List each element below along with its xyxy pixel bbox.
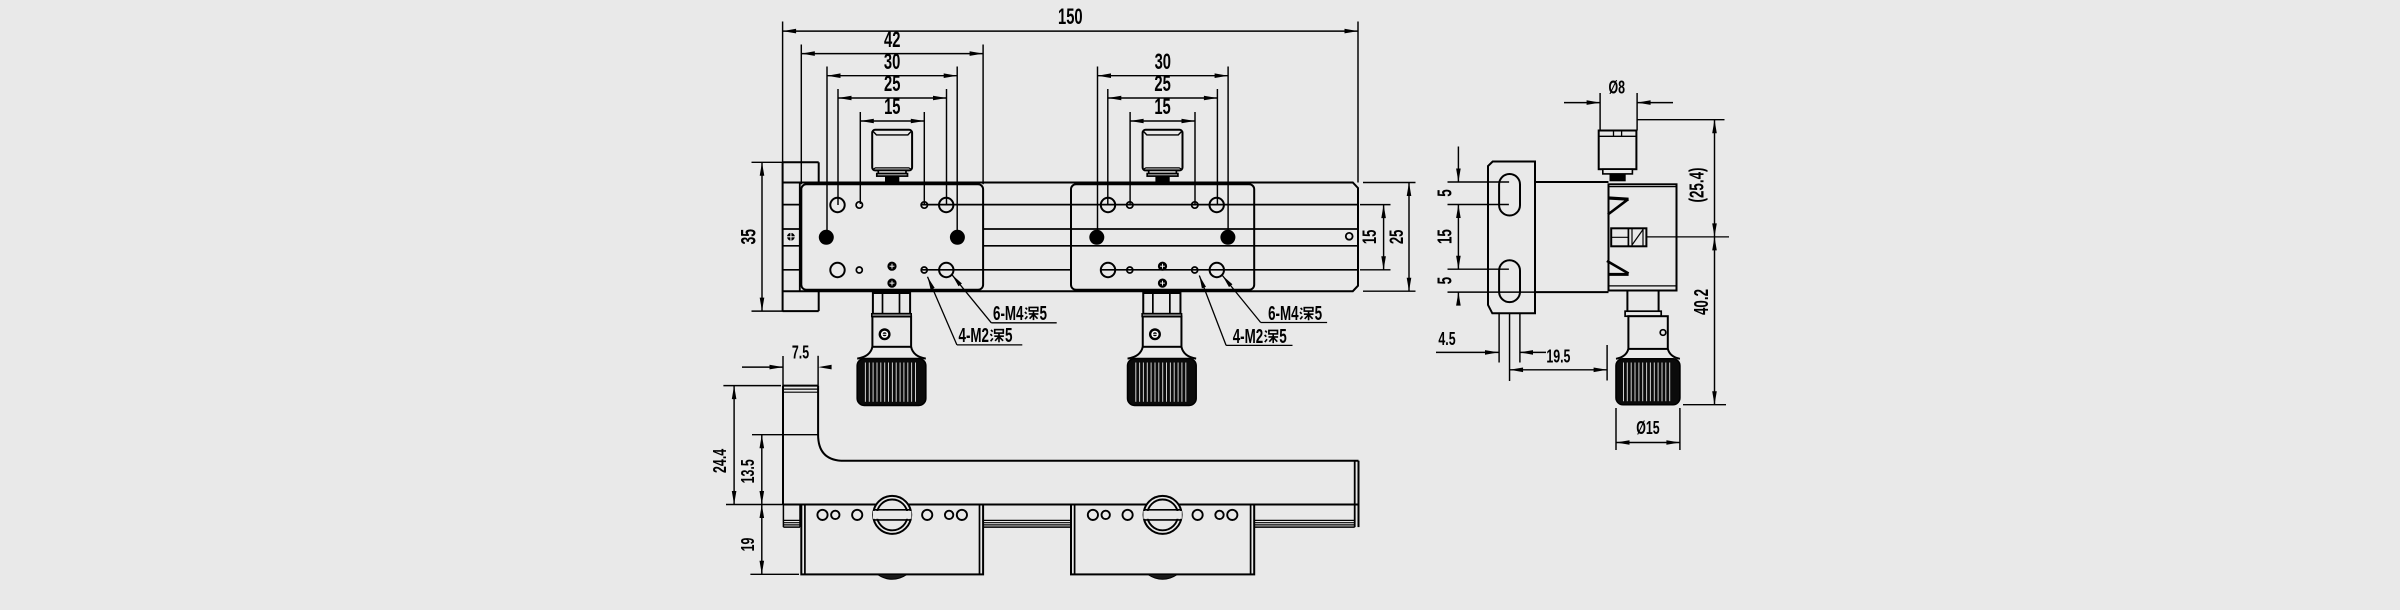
dimension 25 (stage 2) extension lines — [1108, 89, 1218, 205]
leader label 6M4 (stage 2) — [1223, 276, 1328, 326]
dimension 25 (stage 2) — [1108, 71, 1218, 100]
svg-text:4-M2: 4-M2 — [959, 325, 990, 347]
dimension 15 (rail right side) — [1359, 205, 1386, 270]
leader label 6M4 (stage 1) — [952, 275, 1057, 325]
svg-text:40.2: 40.2 — [1691, 289, 1713, 315]
side view: rail profile lines bracket-to-body — [1535, 182, 1609, 292]
dimension (25.4) — [1687, 120, 1717, 237]
dimension 4.5 — [1436, 328, 1546, 355]
dimension 7.5 — [367, 342, 858, 610]
svg-text:5: 5 — [1435, 189, 1457, 197]
plan view: rail dovetail lines — [783, 205, 1358, 270]
dimension 25 (rail right side) — [1386, 183, 1412, 292]
svg-text:6-M4: 6-M4 — [1268, 303, 1299, 325]
plan view: rail top edge — [783, 183, 1358, 292]
dimension 15 (rail right side) extension lines — [1360, 205, 1391, 270]
dimension 35 extension lines — [752, 162, 784, 311]
svg-text:13.5: 13.5 — [737, 459, 758, 483]
side view: drive knob knurled head — [1616, 359, 1680, 405]
front view: dovetail rail strip segments — [783, 505, 1354, 528]
svg-text:15: 15 — [1154, 94, 1170, 119]
leader label 4M2 (stage 1) — [928, 277, 1023, 347]
plan view: stage 2 mounting holes — [1089, 198, 1235, 288]
dimension 42 — [801, 27, 983, 56]
svg-text:35: 35 — [737, 229, 760, 245]
svg-text:25: 25 — [1386, 230, 1408, 245]
svg-text:5: 5 — [1435, 277, 1457, 285]
dimension 30 (stage 2) extension lines — [1098, 67, 1229, 232]
svg-text:15: 15 — [884, 94, 900, 119]
svg-text:25: 25 — [1154, 71, 1170, 96]
svg-text:19.5: 19.5 — [1546, 345, 1570, 366]
front view: stage 2 screw holes — [1088, 510, 1238, 520]
svg-text:Ø8: Ø8 — [1609, 77, 1626, 98]
svg-text:30: 30 — [1155, 49, 1171, 74]
front view: stage 2 knob end (big screw circle) — [1143, 496, 1181, 534]
dimension 13.5 — [737, 435, 764, 505]
dimension 42 extension lines — [801, 45, 983, 185]
svg-text:4.5: 4.5 — [1438, 328, 1455, 349]
dimension 15 (middle) — [1435, 205, 1461, 270]
front view: base plate body — [783, 461, 1359, 527]
dimension 5 (bottom) — [1435, 277, 1461, 306]
plan view: stage 1 drive micrometer (pointing down) — [857, 293, 926, 405]
front view: stage 1 knob end (big screw circle) — [873, 496, 911, 534]
dimension 13.5 extension line — [752, 434, 818, 436]
dimension 30 (stage 1) — [827, 49, 957, 78]
dimension diameter 8 extension lines — [1600, 93, 1637, 131]
dimension 24.4 extension lines — [723, 386, 789, 505]
leader label 4M2 (stage 2) — [1199, 276, 1292, 349]
dimension (25.4) extension line — [1637, 119, 1725, 121]
side view: top lock knob — [1599, 131, 1637, 182]
dimension 24.4 — [709, 386, 737, 505]
svg-text:30: 30 — [884, 49, 900, 74]
svg-text:150: 150 — [1058, 4, 1083, 29]
svg-text:24.4: 24.4 — [709, 448, 730, 473]
plan view: stage 2 carriage plate — [1071, 184, 1254, 289]
front view: stage 1 carriage body — [801, 505, 983, 575]
plan view: stage 2 top adjuster knob — [1143, 130, 1183, 183]
svg-text:15: 15 — [1435, 229, 1457, 244]
svg-text:5: 5 — [1040, 303, 1048, 325]
dimension 15 (stage 1) — [860, 94, 924, 123]
side view: dovetail groove marks — [1607, 196, 1629, 276]
plan view: stage 1 top adjuster knob — [872, 130, 912, 183]
dimension 150 extension lines — [783, 22, 1358, 183]
side view: center line — [1646, 236, 1729, 238]
dimension 15 (stage 1) extension lines — [860, 112, 924, 204]
svg-text:5: 5 — [1279, 326, 1287, 348]
dimension 19.5 extension lines — [1499, 313, 1607, 381]
dimension 30 (stage 1) extension lines — [827, 67, 957, 232]
dimension 30 (stage 2) — [1098, 49, 1229, 78]
svg-text:5: 5 — [1315, 303, 1323, 325]
plan view: stage 2 drive micrometer (pointing down) — [1128, 293, 1197, 405]
side view: mounting bracket plate — [1488, 162, 1535, 314]
front view: stage 2 carriage body — [1071, 505, 1254, 575]
front view: stage 1 knurled knob bottom arc — [878, 574, 907, 579]
dimension 15 (stage 2) — [1130, 94, 1195, 123]
dimension 19.5 — [1510, 345, 1608, 372]
side view: stage body — [1609, 184, 1677, 290]
side view: micrometer tip block — [1611, 228, 1646, 246]
dimension 40.2 extension line — [1683, 404, 1726, 406]
dimension diameter 15 extension lines — [1616, 408, 1680, 450]
plan view: rail left end plate — [783, 162, 819, 311]
plan view: stage 1 mounting holes — [819, 198, 965, 288]
dimension 40.2 — [1691, 237, 1717, 405]
dimension 15 (stage 2) extension lines — [1130, 112, 1195, 204]
plan view: stage 1 carriage plate — [801, 184, 983, 289]
side view: drive knob shaft — [1616, 291, 1680, 359]
side view: bracket slot (top) — [1499, 174, 1520, 216]
side view: bracket slot (bottom) — [1499, 260, 1520, 302]
dimension 25 (rail right side) extension lines — [1363, 183, 1416, 292]
front view: stage 2 knurled knob bottom arc — [1148, 574, 1177, 579]
svg-text:4-M2: 4-M2 — [1233, 326, 1264, 348]
svg-text:(25.4): (25.4) — [1687, 168, 1709, 203]
dimension 7.5 extension lines — [783, 356, 818, 386]
dimension 25 (stage 1) extension lines — [838, 89, 947, 205]
svg-text:25: 25 — [884, 71, 900, 96]
dimension 19 extension line — [750, 573, 799, 575]
dimension chain 5/15/5 extension lines — [1448, 182, 1536, 292]
dimension 25 (stage 1) — [838, 71, 947, 100]
dimension 35 — [737, 162, 764, 311]
front view: L-bracket post — [783, 386, 841, 505]
dimension 150 — [783, 4, 1358, 33]
svg-text:19: 19 — [737, 538, 758, 552]
dimension diameter 8 — [1564, 77, 1673, 105]
plan view: rail right end screw — [1346, 233, 1353, 240]
plan view: left end cap screw — [787, 233, 795, 241]
dimension diameter 15 — [1616, 417, 1680, 445]
dimension 5 (top) — [1435, 147, 1461, 197]
dimension 19 — [737, 505, 764, 575]
front view: stage 1 screw holes — [817, 510, 967, 520]
svg-text:6-M4: 6-M4 — [993, 303, 1024, 325]
svg-text:5: 5 — [1005, 325, 1013, 347]
svg-text:15: 15 — [1359, 230, 1381, 245]
svg-text:7.5: 7.5 — [792, 342, 809, 363]
svg-text:Ø15: Ø15 — [1636, 417, 1659, 438]
